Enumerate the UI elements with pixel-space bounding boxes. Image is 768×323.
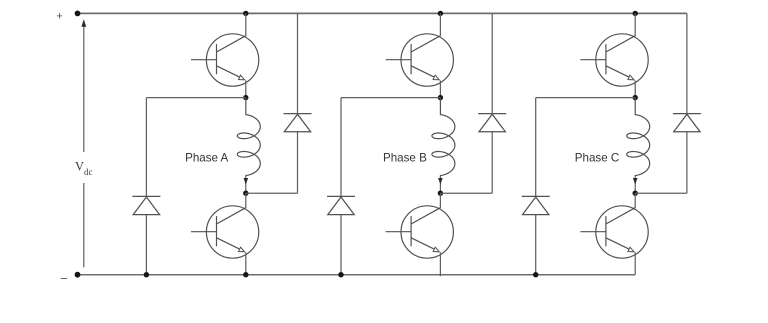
wire: winding-top node to left freewheel branch	[146, 97, 245, 99]
node: D3 anode on negative rail	[338, 272, 343, 277]
wire: right branch vertical lower segment (D4 anode)	[491, 132, 493, 193]
node: phase B winding top junction	[438, 95, 443, 100]
wire: negative DC rail (bottom bus)	[78, 274, 636, 276]
wire: D1 anode down to negative rail	[145, 215, 147, 275]
wire: D4 cathode up to positive rail	[491, 13, 493, 114]
svg-text:+: +	[56, 11, 62, 23]
diode D1 (left freewheel)	[132, 196, 160, 214]
wire: right branch vertical lower segment (D6 anode)	[686, 132, 688, 193]
wire: positive rail to Q1 collector	[245, 13, 247, 36]
node: phase B winding bottom junction	[438, 191, 443, 196]
svg-text:Phase C: Phase C	[575, 152, 619, 165]
wire: winding-top node to left freewheel branch	[536, 97, 636, 99]
wire: winding-bottom node down to Q4 collector	[439, 193, 441, 208]
wire: Q6 emitter lead down to negative rail	[634, 252, 636, 274]
svg-text:Phase B: Phase B	[383, 152, 427, 165]
svg-text:Phase A: Phase A	[185, 152, 228, 165]
wire: winding-top node to left freewheel branch	[341, 97, 440, 99]
wire: D2 cathode up to positive rail	[297, 13, 299, 114]
node: phase A leg on positive rail	[243, 11, 248, 16]
current direction arrow on winding A	[244, 176, 249, 193]
wire: D3 anode down to negative rail	[340, 215, 342, 275]
wire: positive rail to Q3 collector	[439, 13, 441, 36]
inductor winding LA (phase coil)	[237, 98, 260, 176]
wire: left branch vertical upper segment (to D5 cathode)	[535, 98, 537, 197]
wire: winding-bottom node to right freewheel branch	[440, 192, 492, 194]
node: phase C leg on positive rail	[633, 11, 638, 16]
wire: Q1 emitter lead down to winding-top node	[245, 81, 247, 98]
node: Q2 emitter on negative rail	[243, 272, 248, 277]
transistor Q2	[191, 206, 259, 258]
wire: right branch vertical lower segment (D2 anode)	[297, 132, 299, 193]
wire: winding-bottom node to right freewheel branch	[246, 192, 298, 194]
node: phase A winding top junction	[243, 95, 248, 100]
transistor Q6	[580, 206, 648, 258]
wire: winding-bottom node down to Q2 collector	[245, 193, 247, 208]
wire: Q2 emitter lead down to negative rail	[245, 252, 247, 274]
current direction arrow on winding B	[438, 176, 443, 193]
transistor Q4	[386, 206, 454, 258]
wire: Q4 emitter lead down to negative rail	[439, 252, 441, 276]
diode D5 (left freewheel)	[522, 196, 550, 214]
wire: D5 anode down to negative rail	[535, 215, 537, 275]
diode D4 (right freewheel)	[478, 114, 506, 132]
inductor winding LC (phase coil)	[627, 98, 650, 176]
node: D5 anode on negative rail	[533, 272, 538, 277]
node: D1 anode on negative rail	[144, 272, 149, 277]
diode D3 (left freewheel)	[327, 196, 355, 214]
svg-text:Vdc: Vdc	[75, 160, 93, 178]
wire: left branch vertical upper segment (to D3 cathode)	[340, 98, 342, 197]
wire: winding-bottom node to right freewheel branch	[635, 192, 687, 194]
node: DC- terminal junction	[75, 272, 81, 278]
svg-text:–: –	[61, 271, 68, 285]
diode D6 (right freewheel)	[673, 114, 701, 132]
wire: Q5 emitter lead down to winding-top node	[634, 81, 636, 98]
wire: Q3 emitter lead down to winding-top node	[439, 81, 441, 98]
current direction arrow on winding C	[633, 176, 638, 193]
node: phase C winding top junction	[633, 95, 638, 100]
voltage source Vdc: left bus wire lower segment	[83, 183, 85, 267]
node: DC+ terminal junction	[75, 11, 81, 17]
transistor Q3	[386, 34, 454, 86]
wire: positive rail to Q5 collector	[634, 13, 636, 36]
diode D2 (right freewheel)	[284, 114, 312, 132]
wire: positive DC rail (top bus)	[78, 12, 687, 14]
inductor winding LB (phase coil)	[432, 98, 455, 176]
node: phase A winding bottom junction	[243, 191, 248, 196]
wire: left branch vertical upper segment (to D1 cathode)	[145, 98, 147, 197]
node: phase C winding bottom junction	[633, 191, 638, 196]
wire: D6 cathode up to positive rail	[686, 13, 688, 114]
wire: winding-bottom node down to Q6 collector	[634, 193, 636, 208]
node: phase B leg on positive rail	[438, 11, 443, 16]
voltage source Vdc: left bus wire upper segment with up arrow	[81, 19, 86, 152]
transistor Q5	[580, 34, 648, 86]
transistor Q1	[191, 34, 259, 86]
